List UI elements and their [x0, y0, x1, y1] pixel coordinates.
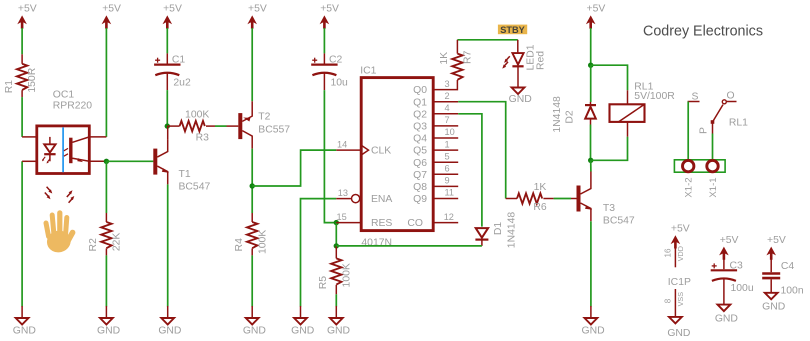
wire	[251, 28, 253, 101]
resistor R7 1K	[439, 50, 473, 79]
resistor R1 150R	[4, 54, 38, 97]
wire	[215, 125, 227, 127]
wire (Q2 to D1)	[458, 114, 482, 227]
svg-text:14: 14	[337, 139, 347, 149]
LED LED1 Red	[502, 40, 523, 88]
svg-text:Q8: Q8	[413, 182, 427, 193]
svg-text:R6: R6	[533, 202, 547, 213]
svg-text:1N4148: 1N4148	[506, 212, 517, 249]
svg-text:+5V: +5V	[767, 235, 786, 246]
svg-text:150R: 150R	[27, 67, 38, 92]
svg-text:GND: GND	[667, 328, 690, 339]
svg-text:Q3: Q3	[413, 122, 427, 133]
wire (red stub to T1 collector)	[167, 126, 169, 139]
svg-text:+5V: +5V	[248, 3, 267, 14]
svg-text:1N4148: 1N4148	[552, 96, 563, 133]
ground (IC1P)	[667, 317, 690, 339]
ground (C3)	[715, 305, 738, 325]
wire	[335, 223, 337, 246]
svg-text:13: 13	[338, 188, 348, 198]
svg-text:STBY: STBY	[500, 25, 525, 35]
svg-text:X1-1: X1-1	[708, 177, 719, 197]
svg-text:22K: 22K	[112, 233, 123, 252]
svg-text:Q0: Q0	[413, 85, 427, 96]
IC1 pin 4 Q2	[413, 103, 458, 120]
svg-text:C2: C2	[329, 55, 343, 66]
svg-text:D1: D1	[493, 222, 504, 236]
svg-text:GND: GND	[243, 326, 266, 337]
wire	[590, 28, 592, 65]
node: RES junction	[334, 220, 339, 225]
wire	[590, 221, 592, 306]
svg-text:BC557: BC557	[258, 124, 290, 135]
svg-text:5: 5	[445, 151, 450, 161]
svg-text:+5V: +5V	[18, 3, 37, 14]
hand	[45, 213, 72, 254]
svg-text:GND: GND	[327, 326, 350, 337]
svg-text:Q4: Q4	[413, 134, 427, 145]
svg-text:1K: 1K	[534, 182, 547, 193]
wire	[166, 28, 168, 53]
resistor R2 22K	[88, 213, 122, 255]
svg-text:16: 16	[664, 248, 673, 257]
+5V supply (C2 column)	[320, 3, 339, 28]
STBY label	[498, 25, 527, 35]
svg-text:15: 15	[337, 212, 347, 222]
relay coil RL1 5V/100R	[610, 81, 676, 136]
svg-text:3: 3	[445, 79, 450, 89]
wire	[251, 255, 253, 306]
relay contact lever P	[699, 105, 724, 134]
svg-text:7: 7	[445, 115, 450, 125]
wire	[590, 65, 592, 102]
svg-text:GND: GND	[158, 326, 181, 337]
svg-text:C4: C4	[781, 261, 795, 272]
IC1 pin 14 CLK	[336, 139, 391, 156]
wire	[21, 97, 23, 137]
wire	[105, 161, 107, 213]
svg-text:R3: R3	[196, 132, 210, 143]
IC1 pin 15 RES	[336, 212, 392, 229]
svg-text:S: S	[692, 91, 699, 102]
transistor T2 BC557	[238, 101, 252, 148]
IC1 pin 5 Q6	[413, 151, 458, 168]
+5V supply (relay column)	[586, 3, 605, 28]
svg-text:IC1P: IC1P	[668, 277, 691, 288]
svg-text:T3: T3	[603, 203, 615, 214]
svg-text:+5V: +5V	[671, 223, 690, 234]
svg-text:+5V: +5V	[720, 235, 739, 246]
svg-text:5V/100R: 5V/100R	[634, 91, 675, 102]
svg-text:T2: T2	[258, 111, 270, 122]
svg-text:R5: R5	[318, 276, 329, 290]
ground	[291, 306, 314, 337]
wire	[712, 134, 714, 160]
svg-text:10: 10	[445, 127, 455, 137]
svg-text:12: 12	[444, 212, 454, 222]
IC1 pin 7 Q3	[413, 115, 458, 132]
ground	[327, 306, 350, 337]
svg-text:100n: 100n	[781, 285, 804, 296]
svg-text:X1-2: X1-2	[684, 177, 695, 197]
svg-text:BC547: BC547	[179, 182, 211, 193]
IC1 pin 12 CO	[407, 212, 458, 229]
svg-text:2: 2	[445, 91, 450, 101]
svg-text:100K: 100K	[185, 110, 209, 121]
wire	[554, 198, 571, 200]
svg-text:O: O	[726, 90, 734, 101]
IC1 pin 13 ENA	[336, 188, 392, 205]
svg-text:GND: GND	[582, 326, 605, 337]
svg-text:RPR220: RPR220	[53, 100, 92, 111]
wire	[167, 184, 169, 306]
resistor R6 1K	[506, 182, 554, 213]
+5V supply (sensor collector column)	[102, 3, 121, 28]
svg-text:8: 8	[664, 298, 673, 303]
svg-text:R7: R7	[463, 50, 474, 64]
svg-text:P: P	[699, 127, 710, 134]
svg-text:1: 1	[445, 139, 450, 149]
svg-text:CO: CO	[407, 218, 423, 229]
svg-text:R4: R4	[234, 238, 245, 252]
svg-text:100K: 100K	[257, 230, 268, 254]
transistor T1 BC547	[153, 139, 169, 184]
svg-text:10u: 10u	[331, 78, 349, 89]
svg-text:+5V: +5V	[102, 3, 121, 14]
svg-text:GND: GND	[509, 94, 532, 105]
node: R5/D1 junction	[334, 243, 339, 248]
IC1 pin 6 Q7	[413, 164, 458, 181]
wire	[105, 255, 107, 306]
svg-text:GND: GND	[762, 301, 785, 312]
IC1 pin 1 Q5	[413, 139, 458, 156]
capacitor C4 100n	[762, 257, 804, 296]
svg-text:4017N: 4017N	[361, 237, 392, 248]
resistor R4 100K	[234, 213, 268, 255]
+5V supply (C4)	[766, 235, 785, 260]
svg-text:RL1: RL1	[729, 118, 748, 129]
terminal block X1	[674, 160, 725, 172]
svg-text:2u2: 2u2	[173, 78, 191, 89]
node: T2 collector junction	[250, 183, 255, 188]
svg-text:4: 4	[445, 103, 450, 113]
node: relay bottom junction	[588, 158, 593, 163]
svg-text:BC547: BC547	[603, 216, 635, 227]
svg-text:GND: GND	[715, 313, 738, 324]
diode D1 1N4148	[475, 228, 488, 246]
ground	[13, 306, 36, 337]
wire	[21, 161, 23, 306]
svg-text:Q5: Q5	[413, 146, 427, 157]
svg-text:+5V: +5V	[320, 3, 339, 14]
capacitor C3 100u	[711, 257, 754, 304]
svg-text:Q6: Q6	[413, 158, 427, 169]
svg-text:C3: C3	[730, 260, 744, 271]
wire	[251, 149, 253, 213]
node: T1 collector junction	[165, 123, 170, 128]
ground (T3)	[582, 306, 605, 337]
svg-text:100u: 100u	[731, 283, 754, 294]
wire (C2 to RES)	[324, 90, 336, 223]
svg-text:T1: T1	[179, 169, 191, 180]
svg-text:ENA: ENA	[371, 194, 392, 205]
IC U1 4017N body	[360, 65, 433, 248]
wire (to relay coil top)	[591, 65, 628, 90]
reflection arrows (light to hand)	[45, 187, 53, 199]
diode D2 1N4148	[585, 102, 596, 125]
wire (red pin to T3 base)	[571, 198, 577, 200]
+5V supply (C3)	[719, 235, 738, 260]
ground (LED1)	[509, 88, 532, 106]
wire	[335, 294, 337, 306]
reflection arrows (light reflected)	[67, 190, 75, 202]
svg-text:OC1: OC1	[53, 90, 75, 101]
svg-text:GND: GND	[13, 326, 36, 337]
wire (relay coil bottom)	[591, 137, 628, 161]
ground	[97, 306, 120, 337]
wire	[166, 90, 168, 126]
svg-text:Red: Red	[536, 51, 547, 70]
+5V supply (T2 emitter column)	[247, 3, 266, 28]
relay contact S terminal	[688, 91, 700, 102]
svg-text:Q9: Q9	[413, 194, 427, 205]
wire	[21, 28, 23, 54]
svg-text:CLK: CLK	[371, 146, 391, 157]
relay contact O terminal	[722, 90, 736, 103]
wire	[590, 125, 592, 161]
svg-text:R2: R2	[88, 238, 99, 252]
wire	[252, 150, 336, 186]
capacitor C2 10u	[311, 53, 348, 90]
svg-text:GND: GND	[97, 326, 120, 337]
svg-text:GND: GND	[291, 326, 314, 337]
svg-text:RES: RES	[371, 218, 392, 229]
svg-text:VDD: VDD	[676, 246, 685, 261]
svg-text:VSS: VSS	[676, 292, 685, 307]
transistor T3 BC547	[577, 172, 593, 222]
svg-text:R1: R1	[4, 80, 15, 94]
svg-text:11: 11	[445, 188, 455, 198]
resistor R5 100K	[318, 246, 352, 294]
svg-text:1K: 1K	[439, 52, 450, 65]
IC1 pin 11 Q9	[413, 188, 458, 205]
svg-text:Q2: Q2	[413, 109, 427, 120]
wire (ENA to ground)	[301, 199, 337, 307]
node: sensor emitter junction	[104, 159, 109, 164]
svg-text:D2: D2	[564, 110, 575, 124]
IC1 pin 9 Q8	[413, 176, 458, 193]
wire	[590, 160, 592, 171]
wire	[323, 28, 325, 53]
wire (red pin to T2 base)	[227, 125, 239, 127]
IC1P power pins	[664, 223, 691, 317]
wire (STBY net)	[457, 39, 517, 41]
svg-text:Q1: Q1	[413, 97, 427, 108]
IC1 pin 10 Q4	[413, 127, 458, 144]
resistor R3 100K	[167, 110, 215, 144]
svg-text:9: 9	[445, 176, 450, 186]
wire	[687, 102, 689, 160]
svg-text:Q7: Q7	[413, 170, 427, 181]
node: relay top junction	[588, 62, 593, 67]
svg-text:+5V: +5V	[587, 3, 606, 14]
svg-text:IC1: IC1	[360, 65, 376, 76]
svg-text:6: 6	[445, 164, 450, 174]
ground	[158, 306, 181, 337]
+5V supply (R1 column)	[17, 3, 36, 28]
IC1 pin 3 Q0	[413, 79, 457, 96]
svg-text:C1: C1	[172, 55, 186, 66]
svg-text:100K: 100K	[341, 263, 352, 287]
svg-text:+5V: +5V	[163, 3, 182, 14]
wire	[105, 28, 107, 137]
ground (C4)	[762, 293, 785, 313]
IC1 pin 2 Q1	[413, 91, 458, 108]
capacitor C1 2u2	[154, 53, 191, 90]
ground	[243, 306, 266, 337]
wire (D1 to RES net)	[336, 245, 482, 247]
optocoupler OC1 RPR220	[22, 126, 106, 174]
wire	[106, 160, 153, 162]
wire (Q1 to R6)	[458, 102, 506, 199]
+5V supply (C1 column)	[163, 3, 182, 28]
svg-text:Codrey Electronics: Codrey Electronics	[643, 23, 763, 39]
